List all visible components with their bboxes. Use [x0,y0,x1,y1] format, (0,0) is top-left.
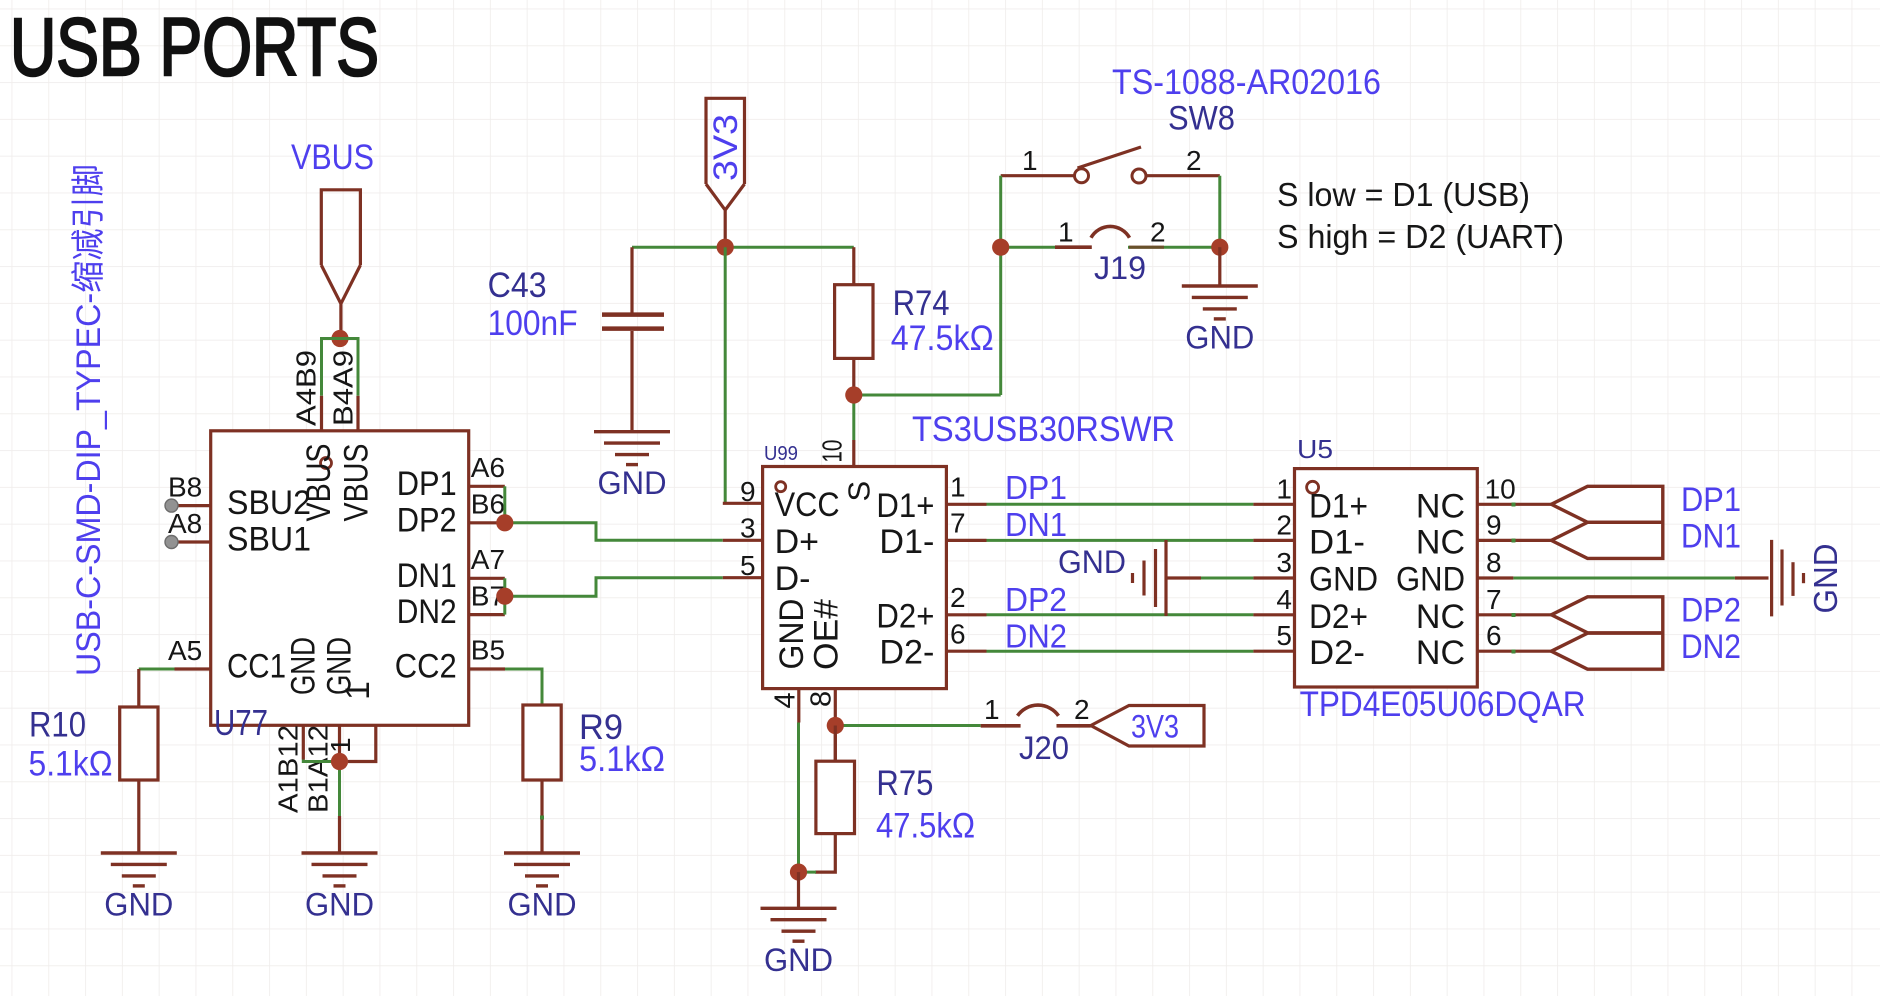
svg-text:2: 2 [1074,694,1090,725]
svg-text:GND: GND [598,465,667,501]
junction R74 bottom [845,386,862,403]
junction J19 right [1211,239,1228,256]
svg-text:7: 7 [1486,584,1502,615]
svg-text:5: 5 [1276,620,1292,651]
svg-text:1: 1 [1058,217,1074,248]
U5 pin numbers [1276,473,1515,651]
svg-text:D1+: D1+ [1309,487,1368,525]
junction VBUS pins [331,330,348,347]
wire GND to U5 pin3 [1201,577,1253,580]
svg-text:SW8: SW8 [1168,100,1235,138]
svg-text:D2-: D2- [1309,634,1365,672]
junction J19 left [992,239,1009,256]
svg-text:3: 3 [1276,547,1292,578]
svg-text:J19: J19 [1094,250,1146,286]
wire DN to U99 D- [505,578,723,597]
junction U77 gnd [331,753,348,770]
svg-text:USB PORTS: USB PORTS [10,2,379,93]
svg-text:D-: D- [775,560,811,598]
resistor R10 [120,669,158,853]
capacitor C43 [602,247,664,432]
svg-text:100nF: 100nF [488,304,578,343]
svg-text:GND: GND [508,887,577,923]
svg-text:GND: GND [1309,561,1378,599]
svg-text:DN2: DN2 [1681,628,1741,666]
svg-text:DN1: DN1 [397,557,457,595]
ground GND SW8 [1182,286,1258,319]
wire gnd stem [338,816,341,853]
svg-text:5.1kΩ: 5.1kΩ [579,740,665,779]
svg-text:9: 9 [1486,509,1502,540]
svg-text:CC1: CC1 [227,648,286,686]
IC U5 box [1295,469,1478,687]
ground GND R10 [101,853,177,886]
svg-text:6: 6 [950,618,966,649]
wire U5 pin8 to GND right [1513,577,1735,580]
no-connect marker B8 [165,499,178,512]
svg-text:D1+: D1+ [876,487,934,525]
svg-text:5.1kΩ: 5.1kΩ [29,745,113,784]
svg-text:2: 2 [1150,217,1166,248]
resistor R9 [523,705,561,853]
svg-text:D2-: D2- [879,634,934,672]
svg-text:TS3USB30RSWR: TS3USB30RSWR [912,410,1175,449]
svg-text:NC: NC [1416,487,1465,525]
svg-text:VCC: VCC [775,486,840,524]
U5 pin names [1309,487,1465,672]
svg-text:CC2: CC2 [395,648,457,686]
svg-text:3V3: 3V3 [1131,709,1179,745]
svg-text:GND: GND [773,599,811,670]
svg-text:B8: B8 [168,472,202,503]
svg-text:47.5kΩ: 47.5kΩ [891,319,994,358]
svg-text:DP2: DP2 [1005,581,1067,618]
svg-text:10: 10 [1485,473,1516,504]
svg-text:DP1: DP1 [1681,481,1741,519]
svg-text:J20: J20 [1019,730,1069,766]
port DP2 [1551,597,1663,633]
svg-text:DN1: DN1 [1005,506,1067,543]
ground GND C43 [594,432,670,465]
svg-text:8: 8 [1486,547,1502,578]
svg-text:9: 9 [740,476,756,507]
svg-text:U5: U5 [1297,434,1333,464]
svg-text:DP2: DP2 [1681,592,1741,630]
svg-text:2: 2 [1276,509,1292,540]
wire B5 to R9 [505,669,542,705]
junction B7 [496,588,513,605]
svg-text:2: 2 [1186,145,1202,176]
wire DP2 [987,613,1254,616]
svg-text:SBU1: SBU1 [227,521,311,559]
svg-text:1: 1 [339,681,377,700]
U99 pin names [773,481,934,672]
U77 pins [172,396,506,762]
svg-text:A8: A8 [168,508,202,539]
svg-text:B6: B6 [471,489,505,520]
ground GND U77 [302,853,378,886]
svg-text:DN2: DN2 [1005,618,1067,655]
svg-text:TS-1088-AR02016: TS-1088-AR02016 [1112,63,1381,102]
wire U99 pin4 to gnd [799,723,817,873]
svg-text:A4B9: A4B9 [291,350,322,426]
svg-text:GND: GND [305,887,374,923]
ground GND U99 [761,908,837,941]
svg-text:NC: NC [1416,523,1465,561]
svg-text:A1B12: A1B12 [273,725,304,813]
svg-text:C43: C43 [488,266,547,305]
power 3V3 top [706,98,745,247]
svg-text:D1-: D1- [879,523,934,561]
no-connect marker A8 [165,536,178,549]
connector U77 USB-C box [211,431,469,726]
svg-text:1: 1 [1022,145,1038,176]
svg-text:GND: GND [1185,320,1254,356]
svg-text:U77: U77 [214,702,268,743]
svg-text:DP2: DP2 [397,501,457,539]
jumper J20 [981,705,1091,726]
junction B6 [496,514,513,531]
junction 3V3 [717,239,734,256]
svg-text:A6: A6 [471,452,505,483]
U5 pins [1253,504,1551,651]
svg-text:4: 4 [1276,584,1292,615]
wire SW8 pin1 down [999,176,1002,395]
wire gnd stem U99 [797,872,800,908]
svg-text:2: 2 [950,582,966,613]
U77 pin names [227,444,457,701]
power GND right [1735,540,1804,617]
power 3V3 right flag [1091,706,1204,747]
svg-text:VBUS: VBUS [291,138,374,177]
U99 pins [723,440,987,761]
svg-text:DN1: DN1 [1681,517,1741,555]
jumper J19 [1001,246,1055,249]
svg-text:GND: GND [1396,561,1465,599]
svg-text:5: 5 [740,550,756,581]
svg-text:D2+: D2+ [876,597,934,635]
svg-text:7: 7 [950,508,966,539]
wire A7-B7 tie [503,578,506,614]
port DN2 [1551,633,1663,669]
wire DP to U99 D+ [505,523,723,541]
wire DP1 [987,503,1254,506]
svg-text:A5: A5 [168,635,202,666]
svg-text:DP1: DP1 [1005,469,1067,506]
junction U99 pin8 [827,717,844,734]
wire DN2 [987,650,1254,653]
svg-text:D1-: D1- [1309,523,1365,561]
port DN1 [1551,522,1663,558]
svg-text:1: 1 [325,737,356,753]
wire SW8 pin2 down [1218,176,1221,248]
svg-text:NC: NC [1416,634,1465,672]
svg-text:1: 1 [1276,473,1292,504]
wire end marks [540,503,1516,820]
svg-text:DN2: DN2 [397,593,457,631]
svg-text:A7: A7 [471,544,505,575]
U99 pin numbers [740,440,966,709]
wire A6-B6 tie [503,486,506,523]
power VBUS [291,138,374,339]
svg-text:VBUS: VBUS [300,444,338,522]
ground GND R9 [504,853,580,886]
wire 3V3 rail [632,246,854,249]
svg-text:B5: B5 [471,635,505,666]
junction R75 gnd [790,864,807,881]
resistor R75 [815,726,855,873]
svg-text:S low = D1 (USB): S low = D1 (USB) [1277,176,1530,213]
svg-text:47.5kΩ: 47.5kΩ [876,807,975,846]
svg-text:6: 6 [1486,620,1502,651]
svg-text:4: 4 [770,692,802,708]
svg-text:GND: GND [764,942,833,978]
svg-text:GND: GND [1807,544,1844,614]
wire 3V3 to U99 VCC [724,247,727,503]
svg-text:GND: GND [1058,544,1126,580]
IC U99 box [763,467,947,689]
wire R74 to switch net [854,395,1001,440]
svg-text:B4A9: B4A9 [328,350,359,426]
resistor R74 [835,247,873,395]
svg-text:8: 8 [806,691,838,707]
switch SW8 [1001,147,1220,183]
svg-text:R75: R75 [876,764,933,803]
svg-text:DP1: DP1 [397,465,457,503]
svg-text:TPD4E05U06DQAR: TPD4E05U06DQAR [1300,685,1586,724]
svg-text:S high = D2 (UART): S high = D2 (UART) [1277,218,1564,255]
svg-text:1: 1 [950,472,966,503]
wire U99 pin8 to J20 [835,724,980,727]
wire U77 gnd pins tie [303,760,339,817]
wire VBUS to U77 pins [322,339,359,396]
svg-text:U99: U99 [764,443,798,465]
svg-text:R74: R74 [893,284,950,323]
svg-text:GND: GND [285,637,323,695]
wire DN1 [987,539,1254,542]
U77 pin numbers [168,350,505,813]
svg-text:3V3: 3V3 [707,114,745,181]
svg-text:D+: D+ [775,523,819,561]
port DP1 [1551,486,1663,522]
svg-text:1: 1 [984,694,1000,725]
svg-text:NC: NC [1416,598,1465,636]
svg-text:OE#: OE# [808,599,846,670]
svg-text:3: 3 [740,512,756,543]
svg-text:S: S [842,481,877,502]
wire A5 to R10 [139,668,175,671]
wire SW8 gnd stem [1218,247,1221,286]
svg-text:USB-C-SMD-DIP_TYPEC-缩减引脚: USB-C-SMD-DIP_TYPEC-缩减引脚 [70,164,108,676]
svg-text:SBU2: SBU2 [227,484,311,522]
svg-text:D2+: D2+ [1309,598,1368,636]
svg-text:R10: R10 [29,706,86,745]
svg-text:10: 10 [817,440,848,463]
svg-text:GND: GND [104,887,173,923]
svg-text:VBUS: VBUS [338,444,376,522]
